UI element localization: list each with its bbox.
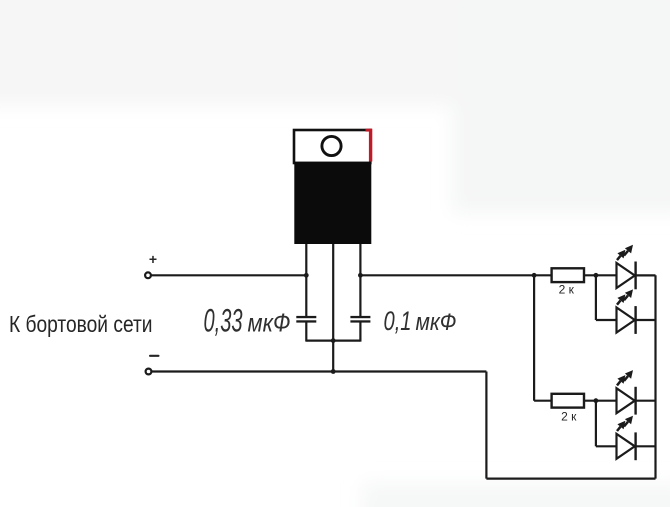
wire: R1 to LED1 anode [584,274,618,276]
minus sign label [149,355,160,357]
emission arrows of D4 [617,416,633,431]
node: minus rail / pin2 junction [331,369,336,374]
capacitor C2 0,1 мкФ [350,316,370,323]
wire: plus terminal to input leg [151,274,306,276]
wire: R2 to LED3 anode [584,400,618,402]
resistor R2 2k [552,394,584,408]
wire: branch to LED4 anode [596,445,618,447]
wire: branch down to LED2 [595,275,597,320]
voltage regulator U1 (TO-220 package) tab [294,129,372,163]
pin 2 (ground leg) of U1 [332,244,334,372]
mounting hole of U1 [322,136,341,155]
wire: ground bus between capacitor bottoms [306,340,360,342]
wire: minus terminal to left return [152,370,487,372]
node: R1 output junction [594,273,599,278]
node: ground bus / pin2 junction [331,338,336,343]
resistor R1 2k [552,268,584,282]
node: R2 output junction [594,398,599,403]
wire: branch down to LED4 [595,401,597,447]
wire: bottom return [486,478,655,480]
node: plus rail / pin1 junction [304,273,309,278]
pin 3 (output leg) of U1 [359,244,361,342]
LED D2 [617,306,656,334]
emission arrows of D2 [617,289,633,304]
svg-text:0,33мкФ: 0,33мкФ [204,303,291,339]
node: output rail / pin3 junction [358,273,363,278]
wire: output rail to resistor R1 [360,274,551,276]
plus input terminal [145,272,151,278]
wire: right cathode rail [654,275,656,478]
LED D1 [617,262,656,290]
wire: branch to resistor R2 [534,400,552,402]
voltage regulator U1 body [294,162,371,244]
capacitor C1 0,33 мкФ [296,316,316,323]
svg-text:0,1мкФ: 0,1мкФ [384,306,457,336]
emission arrows of D3 [617,370,633,385]
svg-text:2 к: 2 к [559,282,575,296]
wire: branch down to second LED group [533,275,535,400]
svg-text:2 к: 2 к [561,409,577,423]
pin 1 (input leg) of U1 [305,244,307,342]
minus input terminal [146,369,152,375]
node: output rail branch to R2 [532,273,537,278]
emission arrows of D1 [617,245,633,260]
LED D3 [617,387,656,415]
wire: left return up to minus rail [485,372,487,479]
wire: branch to LED2 anode [596,319,618,321]
LED D4 [617,432,656,460]
svg-text:+: + [149,251,157,267]
svg-text:К бортовой сети: К бортовой сети [9,311,153,337]
